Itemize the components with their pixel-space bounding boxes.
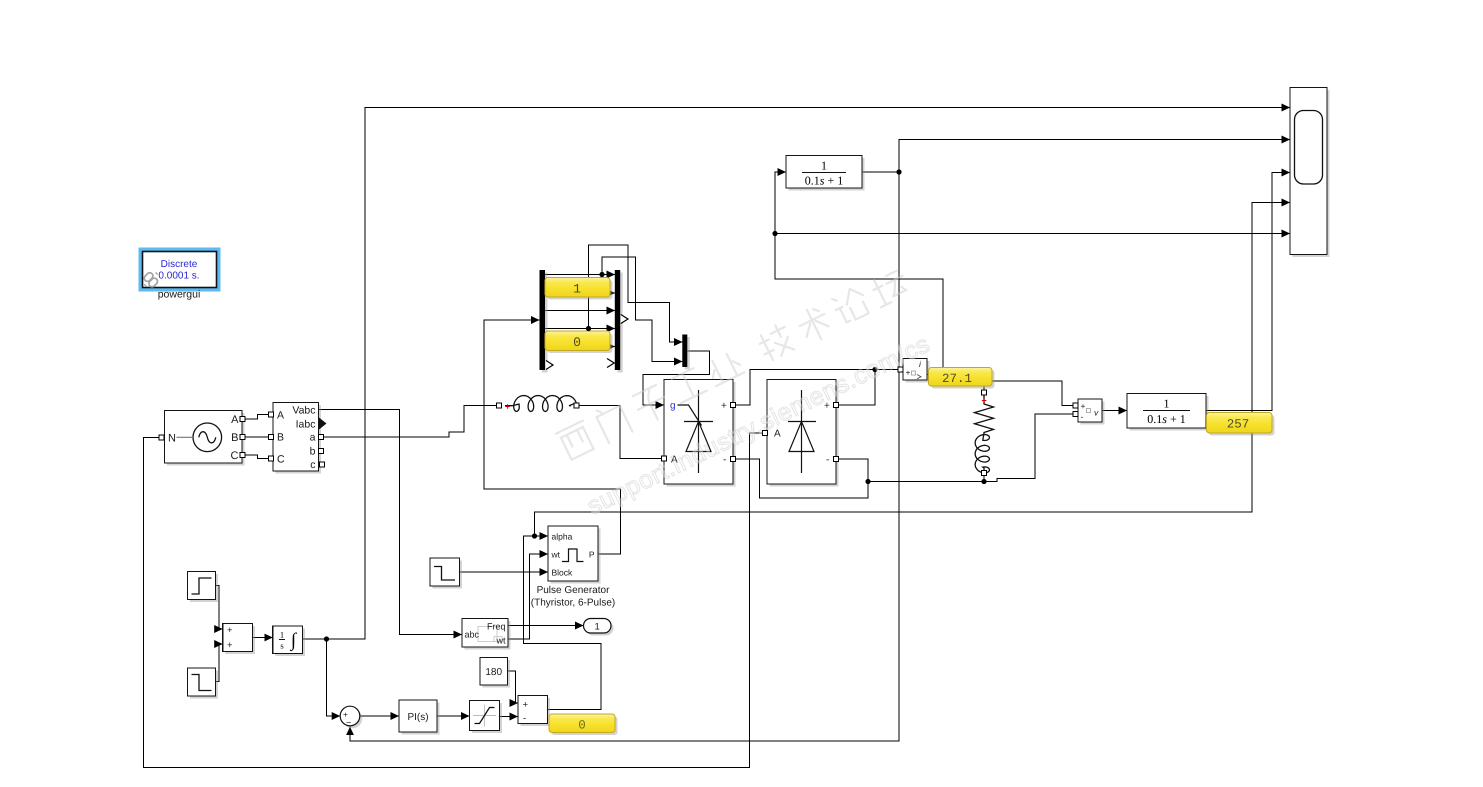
svg-text:s: s: [280, 641, 283, 651]
node converter minus junction: [865, 479, 870, 484]
svg-text:g: g: [670, 401, 676, 412]
sum circle (error): [340, 706, 362, 728]
wire integrator junction down to sum circle input: [327, 639, 341, 716]
wire current measurement output (under display): [927, 374, 945, 376]
svg-text:+: +: [227, 625, 233, 636]
wire current meas output to voltage measurement + input: [988, 381, 1074, 406]
label Pulse Generator (Thyristor, 6-Pulse): [531, 585, 615, 609]
wire pulse generator P output to demux input: [484, 320, 621, 554]
diode converter bridge block: [763, 380, 839, 487]
svg-text:(Thyristor, 6-Pulse): (Thyristor, 6-Pulse): [531, 598, 615, 609]
svg-text:1: 1: [821, 159, 827, 173]
svg-text:+: +: [982, 396, 987, 406]
svg-text:c: c: [310, 459, 315, 471]
wire feedback from TF1 junction down to sum circle: [350, 172, 899, 741]
svg-text:B: B: [231, 432, 238, 444]
wire alpha signal to Scope input 4: [535, 203, 1291, 537]
char 西: [556, 421, 596, 461]
port N: [159, 435, 164, 440]
port Iabc unconnected output: [319, 418, 327, 430]
char 技: [755, 322, 795, 362]
port voltage -: [1073, 412, 1078, 417]
port thyristor -: [731, 457, 736, 462]
wire mux output to thyristor bridge gate g: [643, 351, 710, 405]
mux bus bar: [607, 270, 628, 373]
port c: [320, 462, 325, 467]
wire sum1 output to integrator: [253, 637, 273, 639]
node integrator output junction: [324, 636, 329, 641]
saturation block: [470, 701, 503, 734]
wire inductor to thyristor bridge A terminal: [577, 406, 662, 459]
svg-text:1: 1: [1164, 397, 1170, 411]
wire step2 to sum1 input: [216, 644, 223, 682]
svg-text:-: -: [1081, 412, 1084, 422]
port diode A: [763, 431, 768, 436]
svg-text:+: +: [505, 402, 510, 412]
display 27.1 (highlighted): [929, 368, 995, 389]
svg-text:27.1: 27.1: [942, 372, 972, 386]
svg-text:Discrete: Discrete: [161, 259, 198, 270]
wire minus junction to voltage measurement - input: [868, 414, 1074, 481]
constant 0 (highlighted): [545, 331, 613, 353]
wire demux out3 to mux in4: [545, 328, 615, 330]
svg-text:Vabc: Vabc: [292, 405, 315, 417]
node converter plus junction: [872, 367, 877, 372]
port diode +: [834, 403, 839, 408]
three-phase V-I measurement block: [269, 403, 327, 474]
svg-text:-: -: [523, 713, 526, 724]
svg-text:support.industry.siemens.com/c: support.industry.siemens.com/cs: [583, 330, 935, 521]
sum block 2 (180 - sat): [518, 696, 550, 727]
port C: [240, 453, 245, 458]
svg-text:Iabc: Iabc: [296, 419, 316, 431]
svg-text:0.0001 s.: 0.0001 s.: [158, 271, 199, 282]
port measurement B: [269, 435, 274, 440]
port measurement C: [269, 456, 274, 461]
wire saturation output to sum2 minus input: [500, 716, 519, 718]
integrator block 1/s: [273, 626, 305, 656]
wire PLL wt output to pulse generator wt input: [508, 554, 548, 639]
wire thyristor bridge - output to minus junction: [733, 459, 868, 498]
wire diode bridge - output to minus junction: [836, 459, 868, 482]
wire constant 180 to sum2 plus input: [508, 671, 519, 703]
svg-text:C: C: [231, 450, 239, 462]
transfer function 1/(0.1s+1) lower: [1127, 394, 1209, 431]
svg-text:b: b: [310, 446, 316, 458]
port current meas input: [898, 367, 903, 372]
gate mux bar: [682, 335, 690, 370]
wire current signal junction to Transfer Fcn1 input: [775, 172, 786, 234]
svg-text:A: A: [277, 410, 284, 422]
constant 1 (highlighted): [545, 278, 613, 300]
wire hidden junction to RL load top: [983, 377, 985, 391]
svg-text:257: 257: [1227, 418, 1250, 432]
constant 180: [480, 658, 510, 688]
wire constant 1 to mux in2: [610, 292, 615, 294]
char 论: [830, 285, 871, 326]
wire RL load bottom to minus junction: [983, 475, 985, 482]
wire source C to measurement C: [244, 455, 271, 459]
wire step1 to sum1 input: [216, 586, 223, 630]
three-phase source block: [159, 411, 245, 466]
port diode -: [834, 457, 839, 462]
wire alpha: sum output up and into pulse generator alpha input: [524, 536, 602, 710]
svg-text:0: 0: [573, 335, 581, 350]
demux bus bar: [540, 270, 554, 373]
wire Transfer Fcn1 output to junction and Scope input 2: [862, 140, 1290, 173]
svg-text:a: a: [310, 432, 316, 444]
step block 3 (Block command): [430, 558, 462, 589]
powergui block: [139, 248, 221, 292]
svg-text:1: 1: [280, 630, 284, 640]
svg-text:powergui: powergui: [158, 289, 201, 301]
step block 1 (step up): [188, 572, 219, 603]
svg-text:N: N: [168, 433, 176, 445]
port measurement A: [269, 412, 274, 417]
thyristor symbol: [678, 390, 714, 473]
wire thyristor bridge + output to current measurement: [733, 370, 900, 406]
wire PLL Freq output to goto tag 1: [508, 625, 584, 627]
char 子: [631, 384, 671, 425]
wire demux out1 to mux in1: [545, 274, 615, 276]
current measurement block: [898, 359, 930, 383]
label powergui: [158, 289, 201, 301]
svg-text:Block: Block: [552, 568, 574, 578]
char 坛: [869, 268, 911, 307]
node demux line1 junction: [599, 272, 604, 277]
port thyristor A: [662, 456, 667, 461]
port A: [240, 417, 245, 422]
svg-text:+: +: [227, 640, 233, 651]
transfer function 1/(0.1s+1) upper: [786, 156, 865, 191]
PLL block (abc to Freq/wt): [462, 619, 511, 650]
wire Transfer Fcn2 output to Scope input 3: [1206, 173, 1290, 411]
svg-text:+: +: [523, 700, 529, 711]
goto tag oval 1: [584, 619, 614, 636]
port B: [240, 435, 245, 440]
series RL branch (inductor): [497, 396, 580, 412]
sum block 1 (add): [223, 624, 255, 655]
svg-text:1: 1: [595, 622, 600, 633]
wire source B to measurement B: [244, 436, 271, 438]
svg-text:1: 1: [573, 282, 581, 297]
port load top: [982, 390, 987, 395]
svg-text:A: A: [231, 414, 239, 426]
pulse generator block: [548, 526, 601, 584]
char 业: [705, 350, 744, 386]
wire source N terminal to diode bridge A terminal (bottom loop): [144, 433, 766, 768]
svg-text:0.1s + 1: 0.1s + 1: [1147, 412, 1185, 426]
char 工: [670, 367, 707, 403]
svg-text:C: C: [277, 454, 285, 466]
wire demux out2 to mux in3: [545, 310, 615, 312]
thyristor converter bridge block: [662, 380, 736, 487]
display 257 (highlighted): [1207, 413, 1275, 436]
svg-text:+: +: [721, 401, 727, 412]
node current signal junction: [772, 231, 777, 236]
svg-text:Freq: Freq: [487, 622, 506, 632]
wire voltage measurement output to Transfer Fcn2: [1102, 410, 1127, 412]
scope block: [1290, 88, 1330, 258]
wire source A to measurement A: [244, 415, 271, 420]
svg-text:wt: wt: [496, 636, 506, 646]
svg-text:P: P: [589, 550, 595, 560]
port thyristor +: [731, 403, 736, 408]
svg-text:-: -: [826, 455, 829, 466]
port inductor right: [574, 403, 579, 408]
char 门: [594, 401, 632, 443]
svg-text:−: −: [346, 718, 351, 728]
diode symbol: [788, 390, 816, 473]
PI controller block: [399, 700, 440, 735]
port load bottom: [982, 471, 987, 476]
wire measurement terminal a to series inductor: [322, 406, 499, 438]
node demux line3 junction: [586, 326, 591, 331]
step block 2 (step down): [188, 668, 219, 699]
port a: [319, 435, 324, 440]
svg-text:0: 0: [578, 719, 586, 733]
char 术: [795, 304, 834, 346]
series RL load (resistor + inductor): [975, 390, 994, 476]
svg-text:B: B: [277, 432, 284, 444]
wire integrator output to Scope input 1 (top long loop): [303, 108, 1291, 640]
svg-text:wt: wt: [551, 550, 561, 560]
voltage measurement block: [1073, 399, 1105, 425]
svg-text:alpha: alpha: [552, 532, 573, 542]
svg-text:+: +: [1081, 401, 1086, 411]
wire tap from demux out3 to gate mux input 1: [589, 245, 683, 342]
wire current measurement output up to junction (feeds TF1 / scope5): [775, 234, 943, 371]
wire tap from demux out1 to gate mux input 2: [602, 257, 683, 362]
wire sum circle output to PI controller: [360, 715, 399, 717]
port inductor left: [497, 403, 502, 408]
svg-text:+: +: [906, 368, 911, 378]
display 0 (highlighted): [549, 714, 618, 735]
svg-text:Pulse Generator: Pulse Generator: [537, 585, 610, 596]
svg-text:180: 180: [485, 667, 502, 678]
port voltage +: [1073, 403, 1078, 408]
svg-text:abc: abc: [465, 630, 480, 640]
wire step3 to pulse generator Block input: [460, 571, 549, 573]
wire current signal to Scope input 5: [775, 233, 1290, 235]
node alpha junction: [532, 533, 537, 538]
wire PI output to saturation: [437, 715, 470, 717]
watermark (site stamp, rotated): [552, 264, 940, 520]
wire diode bridge + output to junction: [836, 370, 875, 406]
port b: [319, 449, 324, 454]
svg-text:PI(s): PI(s): [407, 712, 428, 723]
node TF1 output junction: [896, 169, 901, 174]
svg-text:0.1s + 1: 0.1s + 1: [805, 174, 843, 188]
node load bottom junction: [981, 479, 986, 484]
wire Vabc measurement to PLL abc input: [319, 410, 463, 635]
wire constant 0 to mux in5: [610, 346, 615, 348]
